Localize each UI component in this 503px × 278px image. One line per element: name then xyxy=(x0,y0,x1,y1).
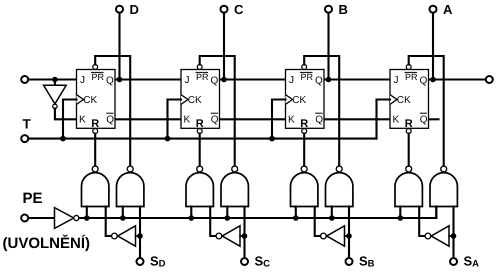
NAND gate G2a (reset) output bubble xyxy=(197,166,203,172)
svg-text:B: B xyxy=(339,2,348,17)
node PE bus tap G3b xyxy=(329,215,335,221)
node PE bus tap G4a xyxy=(398,215,404,221)
preset input terminal SA xyxy=(450,258,457,265)
U3 PR input bubble xyxy=(302,64,307,69)
wire clock bus T xyxy=(29,138,377,140)
wire NAND G3b output to PR of U3 xyxy=(304,56,339,166)
wire NAND G2a output to R of U2 xyxy=(199,134,201,166)
NAND gate G3a (reset) output bubble xyxy=(301,166,307,172)
inverter IN6 (SA complement) xyxy=(431,226,449,246)
wire G3a input from PE bus xyxy=(295,207,297,219)
NAND gate G1a (reset) output bubble xyxy=(92,166,98,172)
wire PE to inverter IN2 xyxy=(29,217,55,219)
svg-text:CK: CK xyxy=(188,95,202,106)
svg-text:PR: PR xyxy=(196,72,209,82)
inverter IN4 output bubble xyxy=(216,233,222,239)
svg-text:Q: Q xyxy=(211,76,219,87)
inverter IN1 output bubble xyxy=(53,104,57,108)
node SD inverter tap xyxy=(137,233,143,239)
preset input terminal SB xyxy=(346,258,353,265)
wire inverter IN4 output to G2a input xyxy=(210,207,215,237)
node PE bus tap G2a xyxy=(189,215,195,221)
svg-text:A: A xyxy=(443,2,453,17)
svg-text:CK: CK xyxy=(292,95,306,106)
wire clock to CK of U2 xyxy=(168,100,182,139)
wire SC input line xyxy=(243,207,245,258)
wire inverter IN3 output to G1a input xyxy=(106,207,111,237)
NAND gate G3b (preset) output bubble xyxy=(336,166,342,172)
node clock tap U3 xyxy=(269,136,275,142)
wire terminal D to Q node xyxy=(118,13,120,80)
wire SA to inverter IN6 input xyxy=(449,235,454,237)
wire clock to CK of U1 xyxy=(63,100,77,139)
wire NAND G2b output to PR of U2 xyxy=(200,56,235,166)
node PE bus tap G1b xyxy=(120,215,126,221)
svg-text:J: J xyxy=(394,75,399,86)
preset enable input terminal PE xyxy=(21,215,28,222)
serial data output terminal xyxy=(486,76,493,83)
svg-text:K: K xyxy=(288,115,295,126)
wire SD to inverter IN3 input xyxy=(136,235,141,237)
clock input terminal T xyxy=(21,135,28,142)
inverter IN1 (serial input complement) xyxy=(44,85,67,104)
inverter IN5 output bubble xyxy=(321,233,327,239)
NAND gate G4a (reset) xyxy=(395,173,422,207)
wire Q2 complement to K of U3 xyxy=(220,118,286,120)
NAND gate G2b (preset) xyxy=(221,173,248,207)
NAND gate G2b (preset) output bubble xyxy=(232,166,238,172)
wire terminal B to Q node xyxy=(327,13,329,80)
wire NAND G4b output to PR of U4 xyxy=(409,56,444,166)
U2 R input bubble xyxy=(197,129,202,134)
output terminal A xyxy=(430,6,437,13)
node PE bus tap G1a xyxy=(84,215,90,221)
wire Q2 to J of U3 xyxy=(220,78,286,80)
wire SD input line xyxy=(139,207,141,258)
svg-text:CK: CK xyxy=(83,95,97,106)
U1 R input bubble xyxy=(93,129,98,134)
svg-text:Q: Q xyxy=(106,115,114,126)
svg-text:Q: Q xyxy=(315,76,323,87)
output terminal C xyxy=(221,6,228,13)
node Q2 xyxy=(221,77,227,83)
NAND gate G2a (reset) xyxy=(186,173,213,207)
wire Q1 to J of U2 xyxy=(115,78,181,80)
NAND gate G1b (preset) xyxy=(117,173,144,207)
wire G1a input from PE bus xyxy=(86,207,88,219)
wire NAND G3a output to R of U3 xyxy=(303,134,305,166)
svg-text:K: K xyxy=(79,115,86,126)
node SB inverter tap xyxy=(346,233,352,239)
svg-text:PR: PR xyxy=(301,72,314,82)
wire serial input to J of U1 xyxy=(29,78,77,80)
svg-text:J: J xyxy=(185,75,190,86)
svg-text:K: K xyxy=(184,115,191,126)
wire inverted input to K of U1 xyxy=(55,109,77,120)
U2 PR input bubble xyxy=(197,64,202,69)
svg-text:C: C xyxy=(234,2,244,17)
wire G4b input from PE bus xyxy=(435,207,437,219)
NAND gate G3b (preset) xyxy=(326,173,353,207)
NAND gate G4b (preset) output bubble xyxy=(441,166,447,172)
wire Q4 complement stub xyxy=(429,118,439,120)
wire down to inverter IN1 xyxy=(54,80,56,86)
svg-text:Q: Q xyxy=(315,115,323,126)
wire clock to CK of U4 xyxy=(377,100,391,139)
preset input terminal SC xyxy=(241,258,248,265)
svg-text:(UVOLNĚNÍ): (UVOLNĚNÍ) xyxy=(3,234,91,252)
wire G4a input from PE bus xyxy=(399,207,401,219)
node Q1 xyxy=(117,77,123,83)
svg-text:J: J xyxy=(289,75,294,86)
preset input terminal SD xyxy=(137,258,144,265)
wire inverter IN6 output to G4a input xyxy=(419,207,424,237)
NAND gate G4a (reset) output bubble xyxy=(406,166,412,172)
wire G3b input from PE bus xyxy=(331,207,333,219)
svg-text:PR: PR xyxy=(92,72,105,82)
node SA inverter tap xyxy=(451,233,457,239)
wire SC to inverter IN4 input xyxy=(240,235,245,237)
svg-text:D: D xyxy=(130,2,139,17)
JK flip-flop U1 xyxy=(77,70,116,131)
NAND gate G4b (preset) xyxy=(430,173,457,207)
wire Q3 to J of U4 xyxy=(324,78,390,80)
wire SB input line xyxy=(348,207,350,258)
output terminal B xyxy=(325,6,332,13)
wire inverter IN5 output to G3a input xyxy=(315,207,320,237)
wire terminal C to Q node xyxy=(223,13,225,80)
node SC inverter tap xyxy=(242,233,248,239)
wire NAND G4a output to R of U4 xyxy=(408,134,410,166)
NAND gate G1b (preset) output bubble xyxy=(127,166,133,172)
svg-text:PE: PE xyxy=(23,190,43,207)
wire SA input line xyxy=(452,207,454,258)
serial data input terminal xyxy=(21,76,28,83)
svg-text:Q: Q xyxy=(211,115,219,126)
node PE bus tap G3a xyxy=(293,215,299,221)
JK flip-flop U3 xyxy=(286,70,325,131)
inverter IN4 (SC complement) xyxy=(222,226,240,246)
U4 PR input bubble xyxy=(406,64,411,69)
JK flip-flop U2 xyxy=(181,70,220,131)
U1 PR input bubble xyxy=(93,64,98,69)
svg-text:J: J xyxy=(80,75,85,86)
svg-text:Q: Q xyxy=(106,76,114,87)
wire clock to CK of U3 xyxy=(272,100,286,139)
U3 R input bubble xyxy=(302,129,307,134)
node Q3 xyxy=(326,77,332,83)
wire NAND G1a output to R of U1 xyxy=(94,134,96,166)
wire Q3 complement to K of U4 xyxy=(324,118,390,120)
node clock tap U1 xyxy=(60,136,66,142)
svg-text:Q: Q xyxy=(420,76,428,87)
node PE bus tap G2b xyxy=(225,215,231,221)
wire terminal A to Q node xyxy=(432,13,434,80)
node clock tap U2 xyxy=(165,136,171,142)
svg-text:Q: Q xyxy=(420,115,428,126)
inverter IN2 (PE buffer) xyxy=(55,208,74,229)
inverter IN3 (SD complement) xyxy=(118,226,136,246)
node serial input junction xyxy=(52,77,58,83)
JK flip-flop U4 xyxy=(390,70,429,131)
svg-text:K: K xyxy=(393,115,400,126)
wire SB to inverter IN5 input xyxy=(345,235,350,237)
wire Q1 complement to K of U2 xyxy=(115,118,181,120)
wire Q4 to serial output xyxy=(429,78,486,80)
wire NAND G1b output to PR of U1 xyxy=(95,56,130,166)
inverter IN3 output bubble xyxy=(112,233,118,239)
inverter IN6 output bubble xyxy=(425,233,431,239)
svg-text:PR: PR xyxy=(405,72,418,82)
svg-text:T: T xyxy=(23,117,32,132)
output terminal D xyxy=(116,6,123,13)
NAND gate G3a (reset) xyxy=(291,173,318,207)
wire G2b input from PE bus xyxy=(226,207,228,219)
inverter IN5 (SB complement) xyxy=(327,226,345,246)
wire G1b input from PE bus xyxy=(122,207,124,219)
U4 R input bubble xyxy=(406,129,411,134)
wire G2a input from PE bus xyxy=(190,207,192,219)
node Q4 xyxy=(430,77,436,83)
NAND gate G1a (reset) xyxy=(82,173,109,207)
inverter IN2 output bubble xyxy=(74,215,79,220)
wire preset enable bus xyxy=(79,207,436,219)
svg-text:CK: CK xyxy=(397,95,411,106)
